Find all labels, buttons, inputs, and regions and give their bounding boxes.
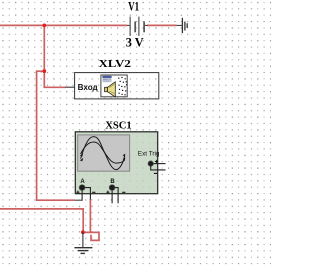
- svg-text:Вход: Вход: [78, 83, 98, 92]
- svg-text:XLV2: XLV2: [99, 58, 132, 70]
- svg-text:3 V: 3 V: [126, 34, 144, 49]
- svg-text:V1: V1: [128, 0, 139, 14]
- svg-text:A: A: [80, 179, 85, 185]
- svg-text:B: B: [110, 179, 115, 185]
- svg-text:Ext Trig: Ext Trig: [138, 151, 160, 158]
- svg-text:XSC1: XSC1: [105, 120, 132, 132]
